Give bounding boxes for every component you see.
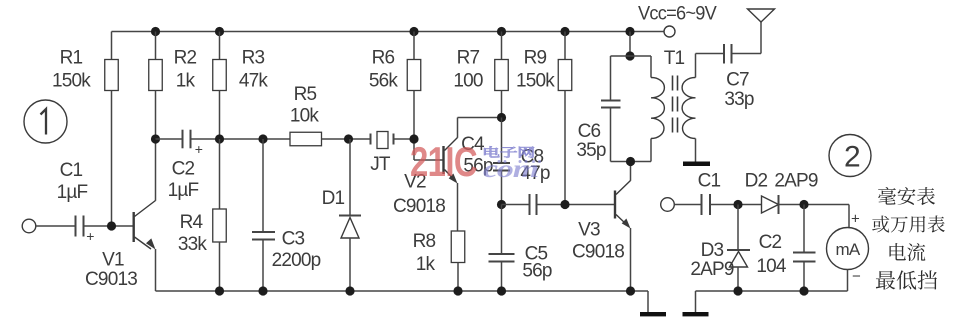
svg-text:D1: D1: [322, 188, 345, 209]
svg-text:47k: 47k: [239, 71, 269, 92]
wire D2 to meter: [779, 204, 850, 206]
node label 1: [24, 100, 67, 143]
svg-text:+: +: [195, 141, 203, 157]
svg-text:2: 2: [844, 141, 860, 174]
wire D1 top lead: [349, 139, 351, 216]
wire ground rail 2: [696, 290, 848, 292]
node C2 det top: [799, 200, 808, 209]
svg-text:1µF: 1µF: [57, 182, 88, 203]
wire D3 top lead: [737, 205, 739, 251]
wire R3 top lead: [219, 32, 221, 60]
capacitor C8: [529, 194, 531, 215]
terminal Vcc: [664, 26, 675, 37]
svg-text:C9018: C9018: [393, 196, 445, 217]
svg-text:C6: C6: [578, 121, 601, 142]
svg-text:56k: 56k: [369, 71, 399, 92]
resistor R8: [451, 231, 465, 263]
svg-text:R4: R4: [180, 212, 204, 233]
resistor R5: [290, 132, 322, 146]
svg-text:JT: JT: [370, 154, 391, 175]
svg-text:C1: C1: [60, 160, 83, 181]
wire C6 bottom lead: [610, 108, 612, 162]
svg-text:33k: 33k: [178, 234, 208, 255]
wire ground rail 1: [156, 290, 649, 292]
node rail-R2: [151, 27, 160, 36]
svg-text:10k: 10k: [290, 106, 320, 127]
svg-text:104: 104: [756, 256, 787, 277]
wire R9 top lead: [564, 32, 566, 60]
wire tank top bracket: [611, 55, 652, 57]
node C5 bottom: [497, 286, 506, 295]
wire R9 bottom lead: [564, 91, 566, 205]
wire D1 bottom lead: [349, 238, 351, 291]
svg-text:C1: C1: [698, 171, 721, 192]
svg-text:C7: C7: [726, 70, 749, 91]
node C3 top: [258, 134, 267, 143]
wire R6 bottom lead: [413, 91, 415, 140]
svg-text:R3: R3: [242, 48, 265, 69]
svg-text:R9: R9: [524, 48, 547, 69]
wire rail to tank: [629, 32, 631, 57]
wire C1 to D2: [710, 204, 762, 206]
transformer T1 secondary: [695, 54, 697, 78]
node R9-V3 base: [560, 200, 569, 209]
node tank top: [625, 51, 634, 60]
meter mA: [827, 228, 869, 270]
svg-text:R5: R5: [294, 84, 317, 105]
wire R6 top lead: [413, 32, 415, 60]
svg-text:2AP9: 2AP9: [774, 171, 818, 192]
ground T1 secondary: [683, 162, 710, 167]
wire C2 det bottom lead: [803, 262, 805, 292]
wire meter bottom lead: [847, 270, 849, 292]
svg-text:1µF: 1µF: [168, 180, 199, 201]
wire C1 to base: [84, 225, 134, 227]
node D1 bottom: [345, 286, 354, 295]
resistor R1: [105, 60, 119, 91]
transistor V1 C9013: [132, 212, 134, 242]
wire R2 bottom lead: [155, 91, 157, 140]
wire V3 collector: [630, 162, 632, 181]
svg-text:35p: 35p: [576, 140, 606, 161]
svg-text:C9018: C9018: [572, 242, 624, 263]
wire R7 top lead: [501, 32, 503, 60]
wire C2 right to R5: [191, 138, 291, 140]
svg-text:Vcc=6~9V: Vcc=6~9V: [638, 4, 717, 25]
capacitor C2: [182, 130, 184, 149]
wire V1 emitter: [155, 249, 157, 291]
node V3 emitter bottom: [626, 286, 635, 295]
wire secondary to C7: [696, 53, 725, 55]
transistor V3 C9018: [614, 191, 616, 219]
node JT-R6: [409, 134, 418, 143]
svg-text:T1: T1: [664, 48, 685, 69]
node label 2: [829, 135, 871, 177]
wire C8 to V3 base: [537, 204, 615, 206]
node rail-T1: [625, 27, 634, 36]
diode D3 2AP9: [727, 249, 750, 251]
svg-text:100: 100: [453, 71, 483, 92]
node D3 top: [733, 200, 742, 209]
svg-text:V1: V1: [102, 250, 124, 271]
wire input2 to C1: [674, 204, 701, 206]
wire meter top lead: [848, 205, 850, 229]
wire Vcc supply rail: [112, 31, 664, 33]
node rail-R3: [215, 27, 224, 36]
wire C2 det top lead: [803, 205, 805, 253]
node base V1: [107, 221, 116, 230]
wire JT to V2 base: [394, 138, 415, 140]
svg-text:R1: R1: [60, 48, 83, 69]
svg-text:R8: R8: [413, 231, 436, 252]
wire C5 bottom lead: [501, 262, 503, 292]
svg-text:150k: 150k: [516, 71, 555, 92]
wire V3 emitter: [630, 228, 632, 291]
svg-text:2AP9: 2AP9: [690, 259, 734, 280]
transformer T1 primary: [650, 56, 652, 78]
svg-text:D3: D3: [701, 240, 724, 261]
node C3 bottom: [258, 286, 267, 295]
resistor R4: [213, 209, 227, 242]
node V1 collector-R2-C2: [151, 134, 160, 143]
capacitor C4: [493, 162, 510, 164]
svg-text:C9013: C9013: [85, 269, 137, 290]
svg-text:C3: C3: [282, 229, 305, 250]
svg-text:com: com: [483, 156, 538, 183]
text meter annotation (milliammeter / multimeter lowest current range): [878, 187, 896, 205]
node R7-C4: [497, 113, 506, 122]
node R4 bottom: [215, 286, 224, 295]
wire C6 top lead: [610, 56, 612, 101]
capacitor C1: [75, 216, 77, 237]
resistor R9: [558, 60, 572, 91]
wire R2 top lead: [155, 32, 157, 60]
transformer T1 core: [672, 76, 674, 133]
resistor R6: [407, 60, 421, 91]
wire V2 emitter: [457, 183, 459, 231]
resistor R2: [149, 60, 163, 91]
node C2 det bottom: [799, 286, 808, 295]
svg-text:150k: 150k: [52, 71, 91, 92]
svg-text:−: −: [852, 268, 861, 285]
wire C2 left lead: [156, 138, 183, 140]
wire R5 to JT: [322, 138, 371, 140]
node rail-R7: [497, 27, 506, 36]
wire V1 collector: [155, 139, 157, 201]
node rail-R6: [409, 27, 418, 36]
capacitor C5: [489, 253, 515, 255]
svg-text:mA: mA: [836, 240, 861, 259]
capacitor C1 det: [701, 194, 703, 215]
svg-text:C2: C2: [172, 159, 195, 180]
svg-text:1k: 1k: [176, 71, 196, 92]
svg-text:C2: C2: [759, 232, 782, 253]
svg-text:33p: 33p: [724, 89, 754, 110]
wire R4 top lead: [219, 139, 221, 209]
node C4-C5-C8: [497, 200, 506, 209]
ground circuit 2: [683, 312, 709, 316]
capacitor C6: [601, 100, 621, 102]
resistor R3: [213, 60, 227, 91]
terminal input 2: [661, 198, 675, 212]
wire C5 top lead: [501, 205, 503, 255]
svg-text:56p: 56p: [522, 261, 552, 282]
svg-text:R6: R6: [372, 48, 395, 69]
wire input to C1: [36, 225, 76, 227]
capacitor C2 det: [793, 252, 816, 254]
wire C3 bottom lead: [262, 240, 264, 292]
wire D3 bottom lead: [737, 267, 739, 291]
svg-text:1k: 1k: [416, 254, 436, 275]
wire V2 collector: [457, 118, 459, 138]
diode D1: [339, 215, 361, 217]
svg-text:R7: R7: [457, 48, 480, 69]
capacitor C7: [723, 44, 725, 64]
wire R1 top lead: [111, 32, 113, 60]
wire C4 top lead: [501, 118, 503, 164]
wire R4 bottom lead: [219, 242, 221, 291]
svg-text:+: +: [851, 211, 860, 228]
resistor R7: [495, 60, 509, 91]
node D3 bottom: [733, 286, 742, 295]
ground circuit 1: [640, 312, 666, 316]
crystal JT: [370, 134, 372, 145]
wire tank bottom bracket: [611, 161, 652, 163]
node rail-R9: [560, 27, 569, 36]
wire C7 to antenna: [732, 53, 762, 55]
svg-text:21IC: 21IC: [410, 138, 477, 185]
wire C8 left lead: [502, 204, 530, 206]
capacitor C3: [252, 231, 275, 233]
wire C4 bottom lead: [501, 171, 503, 205]
antenna: [748, 9, 775, 22]
transistor V2 C9018: [442, 146, 444, 174]
node D1 top: [344, 134, 353, 143]
node R8 bottom: [453, 286, 462, 295]
node tank bottom: [626, 157, 635, 166]
svg-text:V3: V3: [578, 220, 600, 241]
wire R1 bottom lead: [111, 91, 113, 227]
svg-text:+: +: [86, 228, 94, 244]
terminal input 1: [22, 219, 36, 233]
wire R7 bottom lead: [501, 91, 503, 118]
svg-text:D2: D2: [745, 171, 768, 192]
svg-text:2200p: 2200p: [272, 250, 321, 271]
diode D2 2AP9: [762, 196, 779, 213]
wire R8 bottom lead: [457, 263, 459, 292]
wire C3 top lead: [262, 139, 264, 232]
svg-text:R2: R2: [174, 48, 197, 69]
wire R3 bottom lead: [219, 91, 221, 140]
node C2-R3-R4: [215, 134, 224, 143]
